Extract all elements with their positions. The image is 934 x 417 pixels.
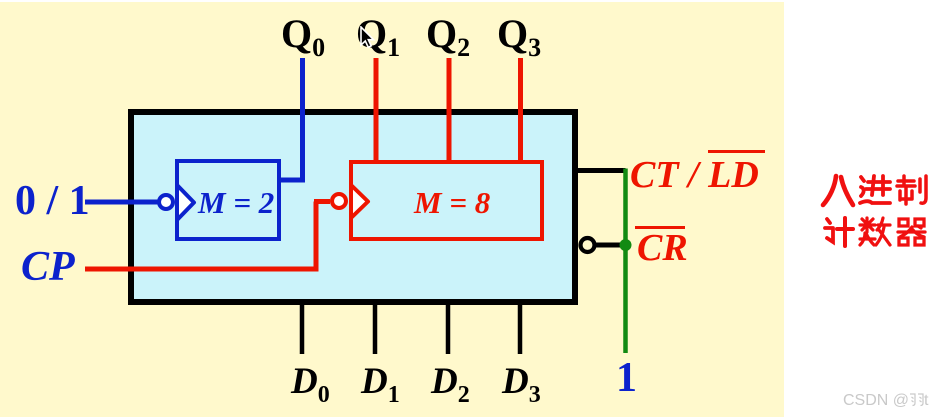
wire Q1 output (red) bbox=[374, 58, 379, 162]
char 制 bbox=[897, 176, 926, 204]
inversion bubble of M=2 bbox=[159, 195, 173, 209]
clock triangle of M=2 bbox=[177, 185, 194, 220]
counter U2 M=8 box (red) bbox=[351, 162, 542, 239]
wire enable net (green) bbox=[623, 169, 628, 354]
IC body box bbox=[131, 112, 575, 302]
wire CR to green net (black) bbox=[595, 243, 626, 248]
label CP bbox=[21, 246, 75, 288]
inversion bubble of M=8 bbox=[332, 194, 346, 208]
inversion bubble CR (black) bbox=[581, 238, 595, 252]
annotation 八进制计数器 (hand-drawn CJK) bbox=[814, 168, 934, 260]
label constant 1 bbox=[616, 357, 637, 399]
char 数 bbox=[860, 218, 890, 245]
flip-flop U1 M=2 box (blue) bbox=[177, 161, 279, 239]
wire Q3 output (red) bbox=[518, 58, 523, 162]
wire CT/LD (black) bbox=[578, 168, 626, 173]
watermark bbox=[843, 392, 928, 409]
wire Q0 output (blue) bbox=[279, 58, 303, 183]
char 八 bbox=[823, 176, 853, 205]
mouse cursor bbox=[360, 26, 380, 52]
label M=2 bbox=[198, 187, 274, 218]
label CT/LD bbox=[630, 156, 759, 194]
label 0/1 bbox=[15, 180, 90, 222]
label M=8 bbox=[414, 187, 490, 218]
wire D2 input (black) bbox=[446, 304, 451, 354]
label Q0 bbox=[281, 14, 325, 61]
wire D1 input (black) bbox=[373, 304, 378, 354]
clock triangle of M=8 bbox=[351, 185, 368, 218]
overline of LD bbox=[708, 150, 765, 153]
junction dot on green net bbox=[620, 239, 632, 251]
label Q3 bbox=[497, 14, 541, 61]
char 进 bbox=[860, 176, 890, 203]
wire D3 input (black) bbox=[518, 304, 523, 354]
label D0 bbox=[291, 363, 330, 407]
char 器 bbox=[898, 219, 925, 245]
char 计 bbox=[825, 218, 853, 246]
wire 0/1 mode input (blue) bbox=[85, 200, 158, 205]
wire Q2 output (red) bbox=[447, 58, 452, 162]
overline of CR bbox=[635, 226, 685, 229]
label Q1 bbox=[356, 14, 400, 61]
label Q2 bbox=[426, 14, 470, 61]
label D2 bbox=[431, 363, 470, 407]
label CR bbox=[637, 229, 688, 267]
label D3 bbox=[502, 363, 541, 407]
label D1 bbox=[361, 363, 400, 407]
wire CP clock input (red) bbox=[85, 202, 330, 272]
wire D0 input (black) bbox=[300, 304, 305, 354]
